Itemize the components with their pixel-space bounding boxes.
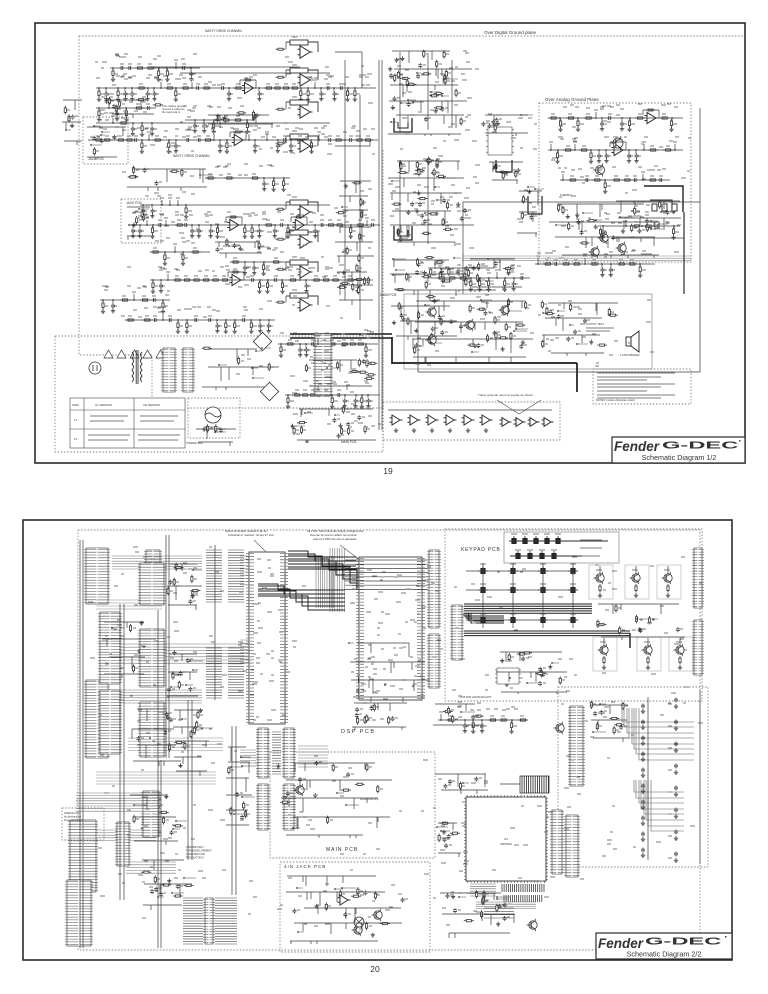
resistor R331 — [358, 676, 360, 685]
resistor R379 — [622, 702, 624, 711]
transistor Q12 — [662, 572, 673, 584]
capacitor C195 — [619, 725, 623, 730]
wire — [413, 685, 425, 687]
ground — [406, 210, 410, 214]
wire — [634, 201, 645, 203]
resistor R260 — [238, 357, 240, 366]
ground — [601, 235, 605, 239]
wire — [393, 258, 406, 260]
resistor R38 — [354, 139, 364, 141]
capacitor C94 — [415, 270, 419, 275]
resistor R314 — [271, 261, 281, 263]
capacitor C122 — [609, 268, 613, 273]
svg-text:Fender: Fender — [614, 439, 660, 454]
wire — [413, 101, 424, 103]
resistor R238 — [546, 307, 548, 316]
capacitor C202 — [641, 800, 645, 805]
resistor R45 — [228, 216, 238, 218]
resistor R397 — [173, 825, 183, 827]
connector J50 — [450, 605, 464, 660]
op-amp U1D — [298, 140, 313, 152]
resistor R427 — [377, 785, 379, 794]
capacitor C116 — [638, 229, 642, 234]
resistor R6 — [165, 87, 175, 89]
ground — [353, 404, 357, 408]
resistor R234 — [507, 298, 509, 307]
resistor R299 — [213, 121, 215, 130]
resistor R282 — [364, 425, 366, 434]
resistor R115 — [276, 268, 286, 270]
wire — [286, 295, 290, 297]
resistor R298 — [134, 107, 144, 109]
feedback resistor — [290, 40, 308, 45]
ground — [674, 858, 678, 862]
wire bold loop — [394, 118, 412, 132]
resistor-pack RN6 — [183, 898, 203, 944]
capacitor C167 — [168, 580, 172, 585]
resistor R269 — [356, 343, 366, 345]
resistor R213 — [644, 225, 654, 227]
resistor-pack RN5 — [484, 908, 514, 918]
resistor R195 — [663, 149, 673, 151]
capacitor C215 — [443, 784, 447, 789]
capacitor C87 — [488, 124, 492, 129]
button SW15 — [508, 585, 518, 593]
wire — [337, 792, 344, 794]
capacitor C189 — [638, 627, 642, 632]
wire — [420, 345, 424, 347]
resistor R249 — [478, 262, 480, 271]
resistor R389 — [464, 920, 474, 922]
wire — [488, 258, 499, 260]
capacitor C133 — [557, 314, 561, 319]
wire ribbon — [96, 772, 216, 784]
resistor R191 — [579, 149, 589, 151]
ground — [621, 229, 625, 233]
wire bold loop — [528, 196, 542, 214]
capacitor C145 — [321, 342, 326, 346]
resistor-pack RN4 — [228, 648, 244, 698]
resistor R312 — [231, 261, 241, 263]
capacitor C169 — [188, 687, 192, 692]
transistor Q7 — [426, 334, 437, 346]
capacitor C144 — [310, 342, 315, 346]
wire — [215, 431, 226, 433]
resistor-pack RN2 — [228, 550, 244, 602]
op-amp U16 — [528, 418, 540, 427]
resistor R340 — [365, 654, 367, 663]
svg-text:MAIN PCB: MAIN PCB — [380, 293, 397, 297]
wire — [528, 186, 535, 188]
resistor R417 — [159, 709, 161, 718]
capacitor C72 — [418, 63, 422, 68]
resistor R224 — [495, 331, 497, 340]
button SW13 — [568, 566, 578, 574]
resistor R254 — [458, 277, 468, 279]
resistor R319 — [192, 589, 194, 598]
ground — [185, 329, 189, 333]
op-amp U8 — [390, 415, 403, 425]
resistor R396 — [141, 828, 151, 830]
ground — [422, 270, 426, 274]
capacitor C216 — [448, 779, 452, 784]
button SW20 — [538, 615, 548, 623]
resistor R173 — [421, 276, 431, 278]
op-amp U2 — [232, 134, 246, 145]
capacitor C79 — [418, 202, 422, 207]
connector J9 — [550, 810, 564, 874]
resistor R134 — [460, 117, 462, 126]
wire — [308, 262, 318, 272]
capacitor C209 — [674, 764, 678, 769]
resistor R420 — [243, 801, 245, 810]
capacitor C139 — [512, 282, 516, 287]
svg-text:THERMAL BRK: THERMAL BRK — [186, 442, 203, 445]
resistor R121 — [443, 74, 445, 83]
button SW8 — [537, 551, 547, 559]
resistor R360 — [635, 615, 637, 624]
capacitor C17 — [181, 66, 186, 70]
wire — [653, 618, 658, 620]
resistor R189 — [556, 151, 558, 160]
wire — [144, 646, 152, 648]
capacitor C58 — [258, 324, 262, 329]
wire — [308, 232, 318, 242]
ground — [289, 149, 293, 153]
resistor R291 — [337, 361, 339, 370]
ground — [124, 117, 128, 121]
resistor R72 — [126, 319, 136, 321]
connector CON1 — [161, 348, 177, 392]
capacitor C222 — [503, 916, 507, 921]
capacitor C176 — [361, 665, 365, 670]
wire — [308, 42, 318, 52]
resistor R288 — [305, 364, 307, 373]
button SW7 — [525, 551, 535, 559]
wire — [292, 425, 305, 427]
capacitor C9 — [227, 92, 231, 97]
wire — [437, 199, 445, 201]
value labels — [67, 37, 703, 932]
wire — [66, 129, 71, 131]
ground — [598, 593, 602, 597]
resistor R110 — [276, 76, 286, 78]
resistor R394 — [173, 895, 183, 897]
ground — [638, 273, 642, 277]
resistor R51 — [326, 224, 336, 226]
wire — [385, 684, 389, 686]
capacitor C225 — [154, 887, 158, 892]
resistor R422 — [228, 766, 230, 775]
capacitor C154 — [332, 418, 336, 423]
ground — [265, 289, 269, 293]
resistor R402 — [155, 828, 157, 837]
output caps — [652, 204, 677, 211]
capacitor C143 — [304, 348, 308, 353]
ground funnel — [497, 400, 541, 414]
resistor R209 — [580, 242, 590, 244]
svg-text:KEYPAD PCB: KEYPAD PCB — [461, 547, 501, 553]
connector J44 — [427, 550, 441, 628]
ground — [674, 748, 678, 752]
speaker LS1 — [626, 331, 639, 352]
capacitor C2 — [104, 92, 108, 97]
op-amp U1C — [298, 106, 313, 118]
resistor R162 — [521, 211, 523, 220]
resistor R297 — [125, 109, 127, 118]
connector J2 — [144, 550, 162, 604]
resistor R262 — [207, 424, 209, 433]
wire ribbon — [240, 556, 249, 585]
capacitor C85 — [423, 219, 427, 224]
capacitor C37 — [197, 229, 201, 234]
resistor R208 — [558, 204, 560, 213]
capacitor C15 — [119, 66, 124, 70]
capacitor C52 — [153, 318, 158, 322]
resistor R131 — [421, 73, 431, 75]
resistor R180 — [559, 119, 561, 128]
wire — [441, 830, 450, 832]
resistor R285 — [358, 371, 368, 373]
wire — [286, 231, 290, 233]
wire — [252, 367, 258, 369]
wire — [600, 703, 606, 705]
capacitor C54 — [193, 318, 198, 322]
wire — [417, 72, 421, 74]
capacitor C47 — [159, 284, 163, 289]
resistor R368 — [511, 721, 513, 730]
resistor R142 — [398, 171, 408, 173]
resistor R358 — [615, 604, 617, 613]
resistor R155 — [428, 213, 438, 215]
svg-text:MAIN PCB: MAIN PCB — [341, 440, 356, 444]
transformer T1 — [132, 350, 142, 384]
button SW11 — [508, 566, 518, 574]
wire — [200, 174, 213, 176]
wire — [431, 94, 443, 96]
resistor R117 — [93, 147, 95, 156]
resistor R217 — [572, 263, 582, 265]
resistor R75 — [186, 321, 188, 330]
ground — [276, 149, 280, 153]
resistor R109 — [276, 48, 286, 50]
transistor Q19 — [372, 909, 383, 921]
resistor R101 — [354, 278, 364, 280]
wire — [486, 280, 494, 282]
ground — [224, 329, 228, 333]
resistor R138 — [416, 161, 418, 170]
ground — [480, 729, 484, 733]
wire — [102, 131, 110, 133]
capacitor C34 — [157, 223, 162, 227]
ground — [227, 97, 231, 101]
wire — [510, 555, 596, 557]
connector J30 — [256, 728, 270, 778]
op-amp U2B — [298, 236, 313, 248]
dac boundary — [558, 687, 708, 867]
resistor R140 — [415, 169, 425, 171]
resistor R123 — [423, 50, 425, 59]
resistor R388 — [483, 896, 485, 905]
resistor R181 — [566, 117, 576, 119]
ground — [257, 289, 261, 293]
ground — [286, 404, 290, 408]
transistor Q8 — [464, 319, 475, 331]
capacitor C127 — [438, 315, 442, 320]
page 2 outer boundary — [78, 530, 700, 950]
resistor R106 — [358, 286, 360, 295]
capacitor C20 — [174, 144, 178, 149]
resistor R32 — [203, 139, 213, 141]
ground — [313, 793, 317, 797]
ground — [600, 127, 604, 131]
resistor R361 — [649, 616, 651, 625]
resistor R104 — [340, 282, 350, 284]
capacitor C208 — [674, 742, 678, 747]
resistor R414 — [190, 730, 192, 739]
ground — [309, 149, 313, 153]
digital ground plane boundary top — [79, 35, 745, 37]
wire heavy output — [392, 337, 577, 363]
connector J10 — [564, 815, 580, 877]
resistor R315 — [102, 301, 104, 310]
capacitor C69 — [113, 135, 117, 140]
resistor R129 — [397, 70, 399, 79]
resistor R333 — [365, 673, 367, 682]
button SW19 — [508, 615, 518, 623]
svg-text:19: 19 — [383, 466, 393, 476]
feedback resistor — [290, 100, 308, 105]
capacitor C104 — [597, 154, 601, 159]
resistor R210 — [659, 200, 661, 209]
resistor R159 — [495, 162, 497, 171]
TM mark — [739, 440, 741, 442]
ground — [503, 287, 507, 291]
resistor R143 — [399, 160, 401, 169]
capacitor C179 — [370, 706, 374, 711]
resistor R257 — [488, 279, 490, 288]
wire — [396, 269, 405, 271]
capacitor C107 — [635, 154, 639, 159]
ground — [151, 289, 155, 293]
ground — [253, 149, 257, 153]
resistor R317 — [140, 299, 150, 301]
resistor R410 — [174, 741, 184, 743]
resistor R47 — [251, 226, 253, 235]
svg-text:development only: development only — [360, 798, 380, 801]
resistor R40 — [118, 122, 128, 124]
wire ribbon — [352, 570, 422, 588]
connector J46 — [138, 563, 166, 605]
op-amp U10 — [426, 415, 439, 425]
capacitor C97 — [449, 319, 453, 324]
wire — [286, 101, 290, 103]
resistor R5 — [137, 87, 147, 89]
ground — [361, 200, 365, 204]
resistor R178 — [467, 269, 469, 278]
transistor Q6 — [426, 306, 437, 318]
ground — [252, 271, 256, 275]
wire ribbon — [298, 746, 328, 767]
button SW12 — [538, 566, 548, 574]
resistor R119 — [136, 216, 138, 225]
ground — [257, 234, 261, 238]
resistor R39 — [363, 139, 373, 141]
resistor R337 — [380, 665, 382, 674]
resistor R248 — [464, 272, 466, 281]
ground — [344, 184, 348, 188]
button SW16 — [538, 585, 548, 593]
svg-text:MAIN PCB: MAIN PCB — [326, 847, 358, 853]
transistor Q3 — [589, 246, 600, 258]
wire — [516, 328, 528, 330]
resistor R246 — [465, 278, 467, 287]
resistor R150 — [418, 168, 420, 177]
resistor R424 — [280, 801, 290, 803]
resistor R351 — [535, 672, 545, 674]
ground — [600, 273, 604, 277]
bridge rectifier BR2 — [260, 382, 278, 400]
capacitor C48 — [250, 278, 255, 282]
ground — [216, 114, 220, 118]
capacitor C178 — [406, 655, 410, 660]
resistor R280 — [297, 422, 307, 424]
wire — [173, 828, 180, 830]
wire heavy supply — [290, 333, 392, 335]
op-amp U14 — [500, 418, 512, 427]
ground — [306, 97, 310, 101]
transistor Q5 — [593, 164, 604, 177]
IC U30 — [464, 795, 548, 883]
wire bus cascade dsp — [288, 551, 357, 588]
wire — [620, 216, 633, 218]
wire — [286, 41, 290, 43]
wire — [342, 887, 356, 889]
resistor R408 — [132, 664, 134, 673]
ground — [589, 340, 593, 344]
resistor R78 — [250, 321, 252, 330]
ground — [641, 773, 645, 777]
resistor R81 — [153, 104, 163, 106]
ground — [145, 97, 149, 101]
ground — [209, 234, 213, 238]
wire — [112, 627, 124, 629]
parts table — [70, 398, 185, 448]
resistor R37 — [334, 139, 344, 141]
capacitor C201 — [641, 784, 645, 789]
connector J31 — [282, 728, 296, 778]
capacitor C76 — [440, 107, 444, 112]
wire — [190, 660, 203, 662]
resistor R11 — [243, 79, 253, 81]
capacitor C82 — [410, 202, 414, 207]
resistor R329 — [360, 687, 362, 696]
resistor R64 — [258, 281, 260, 290]
op-amp U11 — [444, 415, 457, 425]
IC U10 — [486, 127, 514, 155]
resistor R261 — [268, 363, 270, 372]
mains plug P1 — [89, 362, 101, 374]
resistor R103 — [356, 264, 358, 273]
capacitor C95 — [433, 299, 437, 304]
wire ribbon — [76, 793, 161, 811]
capacitor C173 — [409, 674, 413, 679]
resistor R33 — [226, 141, 228, 150]
resistor R70 — [331, 279, 341, 281]
resistor R356 — [647, 656, 649, 665]
ground — [349, 234, 353, 238]
ground — [674, 726, 678, 730]
